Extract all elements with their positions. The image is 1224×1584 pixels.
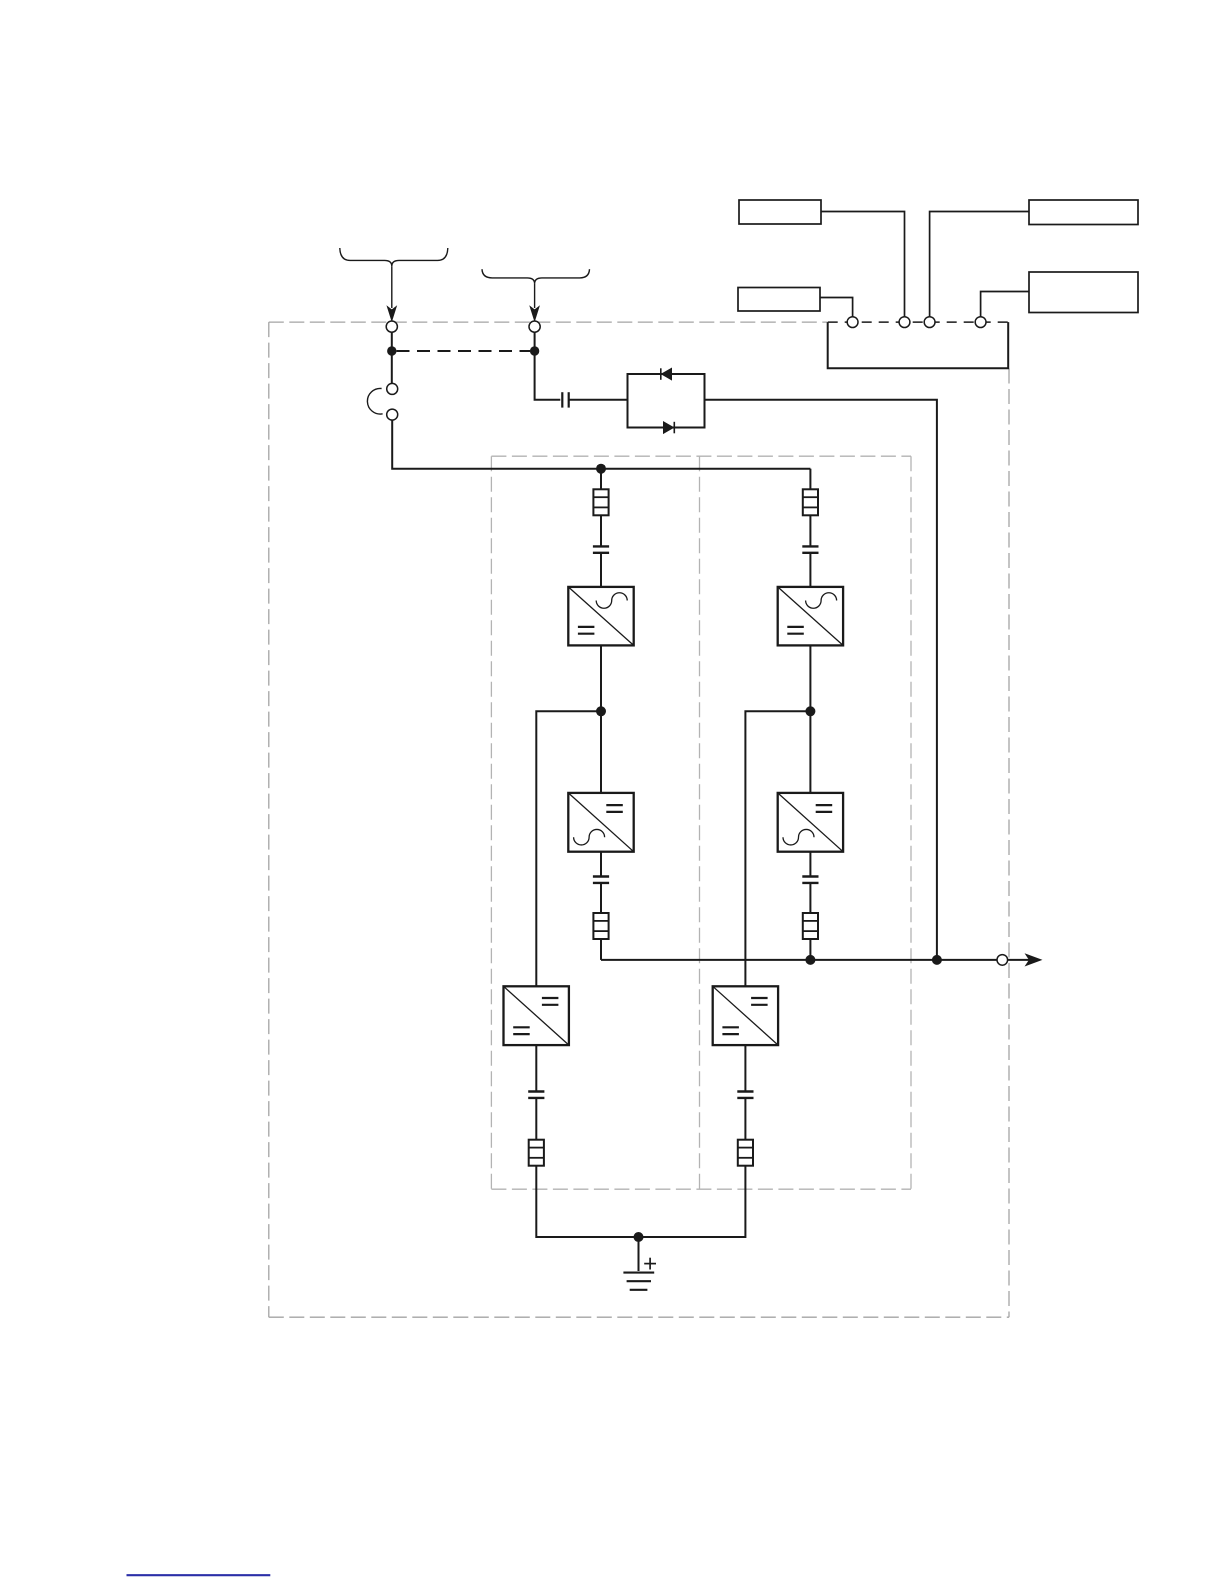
brace 2 (right input group) [482, 269, 590, 283]
wire to ground [638, 1237, 640, 1271]
converter U2 (DC/AC) [568, 793, 633, 852]
output bus wire [601, 959, 997, 961]
capacitor C2 [593, 877, 609, 883]
arrow from brace 1 [387, 266, 396, 320]
wire U2 to C2 [600, 852, 602, 877]
wire node to switch [391, 351, 393, 383]
fuse F6 [738, 1140, 753, 1166]
fuse F5 [529, 1140, 544, 1166]
footer link line [127, 1574, 271, 1576]
capacitor C1 [593, 546, 609, 552]
converter U1 (AC/DC) [568, 587, 633, 646]
terminal t3 [924, 317, 935, 328]
wire node right down to capacitor [535, 351, 561, 400]
node right (junction dot) [530, 346, 539, 355]
node left (junction dot) [387, 346, 396, 355]
wire diode pair to DC output line [705, 400, 937, 960]
wire C2 to fuse F2 [600, 883, 602, 913]
plus label [644, 1258, 656, 1270]
wire U1 to node [600, 645, 602, 711]
wire C1 to converter U1 [600, 553, 602, 587]
brace 1 (left input group) [340, 248, 448, 266]
converter U3 (DC/DC left) [504, 986, 569, 1045]
fuse F1 [593, 489, 608, 515]
wire U6 to C4 [809, 852, 811, 877]
node string2 mid [805, 706, 815, 716]
ground symbol [623, 1273, 654, 1290]
capacitor C5 [528, 1092, 544, 1098]
fuse F3 [803, 489, 818, 515]
wire U5 to node [809, 645, 811, 711]
wire C6 to fuse F6 [744, 1098, 746, 1140]
wire bus to fuse F1 [600, 469, 602, 490]
control box A (top-left) [739, 200, 821, 224]
converter U6 (DC/AC) [778, 793, 843, 852]
output terminal circle [997, 955, 1008, 966]
wire node to converter U6 [809, 711, 811, 793]
fuse F4 [803, 913, 818, 939]
wire C3 to converter U5 [809, 553, 811, 587]
capacitor C3 [802, 546, 818, 552]
wire F5 to ground bus [536, 1166, 638, 1237]
wire box D to bus terminal [981, 292, 1029, 317]
terminal t1 [847, 317, 858, 328]
tap wire string1 to U3 [536, 711, 601, 986]
converter U5 (AC/DC) [778, 587, 843, 646]
wire box B to bus terminal [930, 212, 1029, 317]
capacitor C4 [802, 877, 818, 883]
fuse F2 [593, 913, 608, 939]
inner dashed enclosure [491, 456, 911, 1189]
node on AC bus string 1 [596, 464, 606, 474]
capacitor C6 [737, 1092, 753, 1098]
terminal t2 [899, 317, 910, 328]
wire switch down and right to AC bus [392, 420, 810, 469]
arrow from brace 2 [530, 284, 539, 321]
terminal circle left input [386, 321, 397, 332]
wire bus corner to fuse F3 (string2) [809, 469, 811, 490]
switch S1 (breaker contact) [367, 383, 397, 420]
node string1 mid [596, 706, 606, 716]
wire F1 to C1 [600, 515, 602, 546]
terminal block top dashed edge [828, 321, 1009, 323]
wire F3 to C3 [809, 515, 811, 546]
control box B (top-right) [1029, 200, 1138, 225]
terminal block rectangle [828, 322, 1009, 368]
wire node to converter U2 [600, 711, 602, 793]
node output diode branch [932, 955, 942, 965]
wire box C to bus terminal [820, 298, 853, 317]
diode pair frame [628, 374, 705, 428]
control box D (lower-right) [1029, 272, 1138, 313]
wire U3 to C5 [535, 1045, 537, 1091]
wire F6 to ground bus [639, 1166, 746, 1237]
wire box A to bus terminal [821, 212, 905, 317]
wire U4 to C6 [744, 1045, 746, 1091]
dashed tie line between nodes [397, 350, 531, 352]
terminal t4 [975, 317, 986, 328]
output arrow [1008, 954, 1041, 965]
control box C (lower-left) [738, 288, 820, 312]
diode D1 (top, pointing left) [661, 368, 672, 380]
terminal circle right input [529, 321, 540, 332]
outer dashed enclosure [269, 322, 1009, 1317]
capacitor C0 (series, vertical plates) [562, 392, 568, 407]
diode D2 (bottom, pointing right) [664, 422, 675, 434]
wire right terminal to node [534, 332, 536, 351]
wire left terminal to node [391, 332, 393, 351]
wire C4 to fuse F4 [809, 883, 811, 913]
wire F2 to output bus [600, 939, 602, 960]
tap wire string2 to U4 [745, 711, 810, 986]
wire capacitor to diode pair [569, 399, 628, 401]
wire F4 to output bus [809, 939, 811, 960]
converter U4 (DC/DC right) [713, 986, 778, 1045]
ground node [634, 1232, 644, 1242]
node output string2 [805, 955, 815, 965]
wire C5 to fuse F5 [535, 1098, 537, 1140]
